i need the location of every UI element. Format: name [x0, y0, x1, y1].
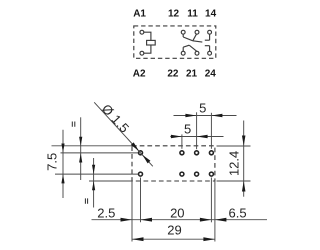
hole A2: [139, 172, 143, 176]
arrow 5 upper right: [211, 114, 222, 118]
arrow 12.4 top: [242, 136, 246, 147]
hole 14: [209, 151, 213, 155]
svg-text:6.5: 6.5: [229, 205, 247, 220]
extension line hole col 14 bottom: [210, 178, 212, 223]
extension line hole row 2 left: [55, 173, 138, 175]
hole 11: [195, 151, 199, 155]
equality mark lower: [85, 198, 87, 203]
svg-text:21: 21: [186, 69, 198, 80]
hole 24: [209, 172, 213, 176]
arrow 20 right: [200, 218, 212, 222]
arrow 6.5 right: [215, 218, 227, 222]
svg-text:7.5: 7.5: [44, 153, 59, 171]
arrow 20 left: [141, 218, 153, 222]
contact terminal 12: [181, 30, 185, 34]
extension line hole row 1 left: [61, 152, 139, 154]
wire coil to A2: [144, 45, 151, 53]
contact blade 22 to pivot: [183, 45, 189, 47]
arrow equality lower a: [92, 165, 95, 174]
extension line col 14: [210, 113, 212, 149]
equality dim line upper: [80, 117, 82, 180]
coil terminal A2: [140, 51, 144, 55]
hole 22: [180, 172, 184, 176]
wire stub 12: [182, 34, 184, 37]
wire A1 to coil: [144, 32, 151, 40]
extension line outline bottom left: [89, 180, 132, 182]
equality mark upper: [72, 122, 75, 127]
extension line outline bottom right: [217, 180, 251, 182]
arrow 12.4 bottom: [242, 181, 246, 192]
svg-text:20: 20: [170, 205, 184, 220]
PCB outline dashed rectangle: [132, 146, 215, 181]
leader arrowhead upper: [131, 142, 139, 151]
arrow equality upper a: [79, 137, 82, 146]
dimension 29 line: [132, 238, 215, 240]
leader arrowhead lower: [142, 155, 150, 164]
arrow 7.5 top: [61, 144, 64, 153]
wire stub 11 to pivot: [193, 34, 197, 41]
extension line outline left bottom: [131, 181, 133, 242]
dimension 7.5 line: [62, 130, 64, 198]
equality dim line lower: [93, 158, 95, 208]
relay dashed outline box (schematic): [134, 26, 216, 58]
svg-text:5: 5: [199, 100, 206, 115]
arrow 5 lower left: [171, 135, 182, 139]
extension line hole col A bottom: [140, 178, 142, 223]
wire stub 24: [209, 46, 211, 52]
svg-text:Ø 1.5: Ø 1.5: [99, 101, 133, 136]
contact hook 24: [205, 45, 210, 47]
wire stub 14: [209, 34, 211, 40]
arrow 5 lower right: [197, 135, 208, 139]
contact terminal 21: [195, 51, 199, 55]
svg-text:12: 12: [168, 8, 180, 19]
svg-text:5: 5: [184, 121, 191, 136]
arrow equality lower b: [92, 181, 95, 190]
contact terminal 24: [208, 51, 212, 55]
bottom dimension chain line: [92, 219, 268, 221]
extension line outline top left: [52, 145, 133, 147]
arrow 5 upper left: [185, 114, 196, 118]
arrow 29 left: [132, 237, 144, 241]
svg-text:24: 24: [205, 69, 217, 80]
contact terminal 11: [195, 30, 199, 34]
hole 21: [195, 172, 199, 176]
arrow 2.5 left: [121, 218, 133, 222]
svg-text:14: 14: [205, 8, 217, 19]
arrow equality upper b: [79, 153, 82, 162]
dimension 5 lower line: [170, 136, 223, 138]
svg-text:22: 22: [167, 69, 179, 80]
svg-text:A1: A1: [133, 8, 146, 19]
wire stub 22: [182, 47, 184, 51]
dimension 5 upper line: [174, 115, 237, 117]
coil rectangle: [147, 40, 156, 45]
coil terminal A1: [140, 30, 144, 34]
svg-text:12.4: 12.4: [226, 151, 241, 176]
contact blade tip under 14: [193, 41, 203, 42]
extension line outline right bottom: [214, 181, 216, 242]
extension line outline top right: [217, 145, 251, 147]
contact terminal 22: [181, 51, 185, 55]
contact blade pivot to 21: [189, 45, 197, 51]
hole A1: [139, 151, 143, 155]
hole diameter leader line: [94, 102, 153, 166]
svg-text:A2: A2: [133, 69, 146, 80]
extension line col 11: [196, 112, 198, 149]
svg-text:11: 11: [187, 8, 198, 19]
hole 12: [180, 151, 184, 155]
svg-text:29: 29: [167, 223, 181, 238]
svg-text:2.5: 2.5: [97, 205, 115, 220]
extension line col 12: [181, 134, 183, 148]
arrow 7.5 bottom: [61, 174, 64, 183]
contact blade 12 to pivot: [183, 37, 193, 41]
contact hook 14: [205, 39, 210, 41]
arrow 29 right: [203, 237, 215, 241]
contact terminal 14: [208, 30, 212, 34]
dimension 12.4 line: [243, 121, 245, 197]
